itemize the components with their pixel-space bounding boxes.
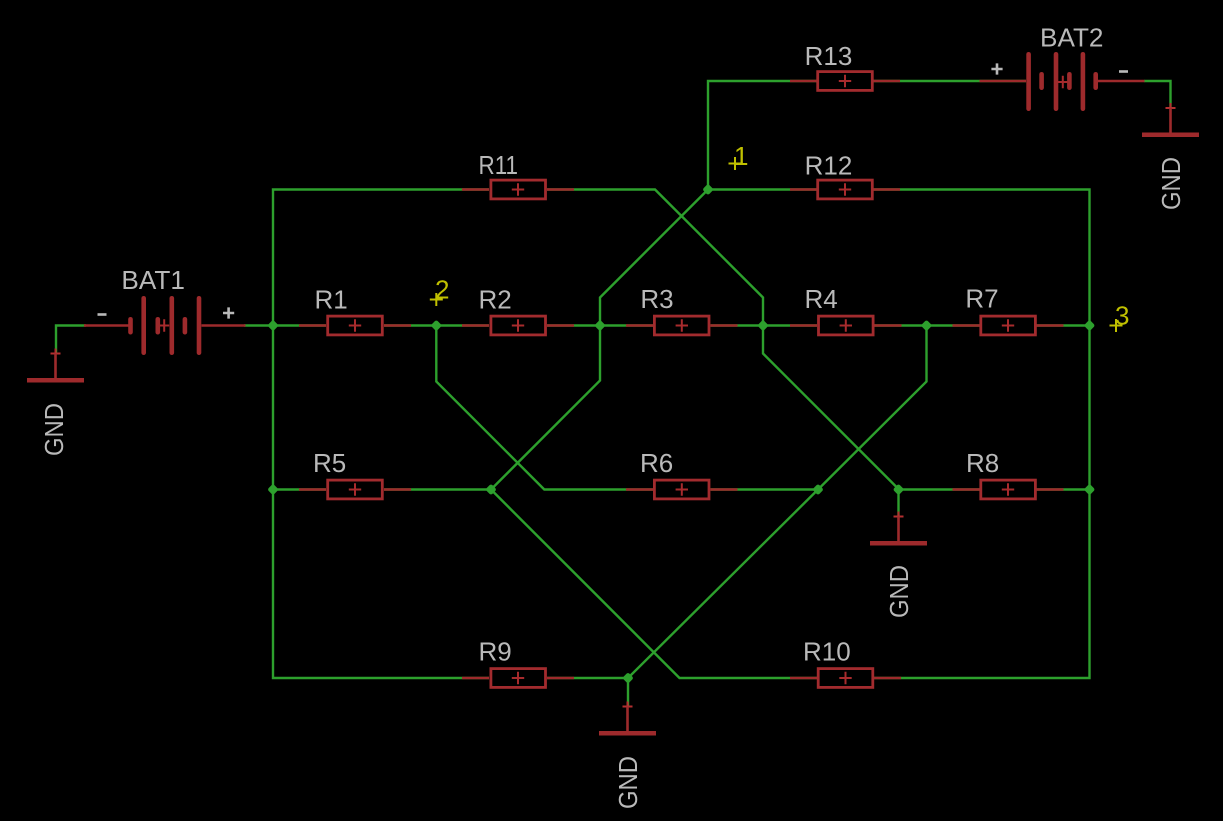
wire lead R8 right bbox=[1037, 488, 1064, 491]
svg-text:2: 2 bbox=[435, 275, 449, 305]
battery BAT2 short bar 2 bbox=[1067, 74, 1072, 87]
svg-text:GND: GND bbox=[1156, 157, 1186, 210]
svg-text:R4: R4 bbox=[805, 284, 838, 314]
wire node R2R3 down diagonal to R5 node bbox=[491, 326, 600, 490]
svg-text:R13: R13 bbox=[805, 41, 853, 71]
wire R8 to right rail bbox=[1037, 488, 1090, 490]
wire top row left (node1 corner to R13) bbox=[708, 81, 817, 190]
resistor R10 origin cross bbox=[839, 672, 851, 685]
resistor R6 box bbox=[654, 480, 709, 499]
battery BAT1 short bar 2 bbox=[156, 319, 161, 332]
battery BAT1 short bar 1 bbox=[128, 319, 133, 332]
battery BAT1 tall bar 3 bbox=[197, 298, 202, 352]
node junction R5 right bbox=[485, 484, 497, 496]
ground GND1 pin cross bbox=[51, 349, 61, 359]
resistor R11 box bbox=[491, 180, 546, 199]
ground GND3 bar bbox=[870, 541, 927, 546]
wire R2 to R3 bbox=[547, 324, 653, 326]
wire lead BAT1 minus bbox=[84, 324, 129, 327]
wire lead R12 right bbox=[873, 188, 900, 191]
wire left rail lower segment bbox=[273, 326, 489, 679]
resistor R3 box bbox=[654, 316, 709, 335]
resistor R4 origin cross bbox=[840, 319, 852, 332]
svg-text:R9: R9 bbox=[479, 637, 512, 667]
node junction GND3 bbox=[893, 484, 905, 496]
wire R1 to R2 through node 2 bbox=[384, 324, 489, 326]
svg-text:R1: R1 bbox=[315, 285, 348, 315]
resistor R9 box bbox=[491, 669, 546, 688]
resistor R3 origin cross bbox=[676, 319, 688, 332]
wire lead R5 left bbox=[299, 488, 326, 491]
resistor R8 box bbox=[981, 480, 1036, 499]
ground GND4 stem bbox=[626, 707, 629, 732]
wire lead R9 left bbox=[462, 677, 489, 680]
wire lead R4 left bbox=[790, 324, 817, 327]
wire lead R3 left bbox=[626, 324, 653, 327]
wire GND3 stub bbox=[897, 490, 899, 518]
wire node1 to R12 bbox=[708, 188, 817, 190]
wire row189 left rail to R11 bbox=[273, 190, 489, 326]
node junction right rail R8 row bbox=[1084, 484, 1096, 496]
battery BAT2 tall bar 1 bbox=[1026, 54, 1031, 108]
svg-text:R2: R2 bbox=[479, 285, 512, 315]
node junction R6 right bbox=[812, 484, 824, 496]
wire R6R8 node diagonal to bottom GND node bbox=[628, 490, 818, 679]
resistor R10 box bbox=[818, 669, 873, 688]
resistor R7 box bbox=[981, 316, 1036, 335]
svg-text:BAT1: BAT1 bbox=[121, 265, 185, 295]
wire lead R2 right bbox=[547, 324, 574, 327]
battery BAT1 short bar 3 bbox=[183, 319, 188, 332]
label BAT2 plus sign bbox=[991, 63, 1002, 74]
wire mid row node to R1 bbox=[273, 324, 326, 326]
svg-text:R7: R7 bbox=[965, 284, 998, 314]
battery BAT2 short bar 3 bbox=[1093, 74, 1098, 87]
svg-text:GND: GND bbox=[884, 565, 914, 618]
wire R4 to R7 bbox=[875, 324, 980, 326]
svg-text:GND: GND bbox=[613, 756, 643, 809]
ground GND3 pin cross bbox=[894, 512, 904, 522]
node junction R2 R3 bbox=[594, 320, 606, 332]
wire node R3R4 down diagonal to GND3 node bbox=[763, 326, 899, 490]
ground GND1 stem bbox=[54, 354, 57, 379]
wire lead R13 left bbox=[790, 80, 817, 83]
wire lead R7 left bbox=[953, 324, 980, 327]
node junction left rail mid bbox=[267, 320, 279, 332]
resistor R2 box bbox=[491, 316, 546, 335]
wire R11 to diagonal into node R3R4 bbox=[547, 190, 763, 326]
resistor R13 origin cross bbox=[839, 75, 851, 88]
resistor R11 origin cross bbox=[512, 183, 524, 196]
resistor R5 origin cross bbox=[349, 483, 361, 496]
resistor R12 origin cross bbox=[839, 183, 851, 196]
wire lead R1 left bbox=[299, 324, 326, 327]
ground GND2 bar bbox=[1142, 133, 1199, 138]
wire lead R6 left bbox=[626, 488, 653, 491]
svg-text:R3: R3 bbox=[640, 284, 673, 314]
label BAT1 plus sign bbox=[223, 307, 234, 318]
wire lead R8 left bbox=[953, 488, 980, 491]
svg-text:1: 1 bbox=[734, 141, 748, 171]
battery BAT2 short bar 1 bbox=[1039, 74, 1044, 87]
svg-text:R6: R6 bbox=[640, 448, 673, 478]
ground GND4 bar bbox=[599, 731, 656, 736]
node junction left rail R5 row bbox=[267, 484, 279, 496]
battery BAT1 tall bar 1 bbox=[141, 298, 146, 352]
ground GND2 stem bbox=[1169, 108, 1172, 133]
wire R5 to its node bbox=[384, 488, 491, 490]
wire lead R1 right bbox=[384, 324, 411, 327]
wire GND1 stub bbox=[56, 326, 86, 355]
resistor R6 origin cross bbox=[676, 483, 688, 496]
wire top row R13 to BAT2 bbox=[873, 80, 1026, 82]
wire lead R12 left bbox=[790, 188, 817, 191]
wire node1 diagonal to node R2R3 bbox=[600, 190, 708, 326]
wire lead BAT2 plus bbox=[980, 80, 1027, 83]
battery BAT1 tall bar 2 bbox=[170, 298, 175, 352]
battery BAT2 tall bar 3 bbox=[1081, 54, 1086, 108]
node 2 name cross bbox=[430, 293, 443, 306]
resistor R1 box bbox=[328, 316, 383, 335]
resistor R7 origin cross bbox=[1002, 319, 1014, 332]
resistor R5 box bbox=[328, 480, 383, 499]
wire lead R13 right bbox=[873, 80, 900, 83]
node 2 junction bbox=[431, 320, 443, 332]
node junction R3 R4 bbox=[757, 320, 769, 332]
resistor R13 box bbox=[818, 72, 873, 91]
resistor R9 origin cross bbox=[512, 672, 524, 685]
wire R3 to R4 bbox=[711, 324, 818, 326]
ground GND4 pin cross bbox=[623, 702, 633, 712]
wire lead R10 left bbox=[790, 677, 817, 680]
wire lead R5 right bbox=[384, 488, 411, 491]
resistor R12 box bbox=[818, 180, 873, 199]
wire lead R7 right bbox=[1037, 324, 1064, 327]
svg-text:R5: R5 bbox=[313, 448, 346, 478]
ground GND3 stem bbox=[897, 517, 900, 542]
wire BAT2 minus to GND2 corner bbox=[1144, 81, 1171, 108]
wire lead R10 right bbox=[874, 677, 901, 680]
wire R6 to R8 node diag bbox=[711, 488, 819, 490]
label BAT1 minus sign bbox=[98, 313, 107, 316]
wire R9 to bottom GND node bbox=[547, 677, 628, 679]
wire R5 node diagonal to R10 row bbox=[491, 490, 817, 679]
svg-text:R12: R12 bbox=[805, 151, 853, 181]
wire lead R4 right bbox=[875, 324, 902, 327]
label BAT2 minus sign bbox=[1119, 70, 1128, 73]
wire lead R3 right bbox=[711, 324, 738, 327]
wire node2 down diagonal to R6 row bbox=[436, 326, 653, 490]
node 3 name cross bbox=[1110, 319, 1123, 332]
svg-text:R8: R8 bbox=[966, 448, 999, 478]
battery BAT1 origin cross bbox=[159, 319, 169, 331]
wire left rail to R5 bbox=[273, 488, 326, 490]
wire R12 to right rail corner bbox=[873, 190, 1090, 326]
wire lead R2 left bbox=[462, 324, 489, 327]
wire GND4 stub bbox=[627, 678, 629, 707]
wire lead BAT2 minus bbox=[1098, 80, 1145, 83]
wire lead R11 left bbox=[462, 188, 489, 191]
svg-text:R10: R10 bbox=[803, 637, 851, 667]
wire BAT1 plus to left rail bbox=[244, 324, 273, 326]
resistor R8 origin cross bbox=[1002, 483, 1014, 496]
battery BAT2 origin cross bbox=[1058, 76, 1068, 88]
wire R7 to right rail node 3 bbox=[1037, 324, 1090, 326]
wire right rail lower segment bbox=[874, 326, 1090, 679]
svg-text:3: 3 bbox=[1115, 301, 1129, 331]
svg-text:BAT2: BAT2 bbox=[1040, 22, 1104, 52]
node 1 junction bbox=[702, 184, 714, 196]
resistor R4 box bbox=[819, 316, 874, 335]
resistor R2 origin cross bbox=[512, 319, 524, 332]
wire lead R11 right bbox=[547, 188, 574, 191]
wire node R4R7 down diagonal to R6R8 node bbox=[818, 326, 927, 490]
wire lead BAT1 plus bbox=[202, 324, 246, 327]
svg-text:R11: R11 bbox=[479, 150, 519, 180]
svg-text:GND: GND bbox=[39, 403, 69, 456]
wire lead R6 right bbox=[711, 488, 738, 491]
wire GND3 node to R8 bbox=[899, 488, 980, 490]
ground GND2 pin cross bbox=[1166, 103, 1176, 113]
battery BAT2 tall bar 2 bbox=[1054, 54, 1059, 108]
node 3 junction right rail bbox=[1084, 320, 1096, 332]
wire lead R9 right bbox=[547, 677, 574, 680]
node junction bottom GND4 bbox=[622, 672, 634, 684]
node 1 name cross bbox=[729, 157, 742, 170]
node junction R4 R7 bbox=[921, 320, 933, 332]
ground GND1 bar bbox=[27, 378, 84, 383]
resistor R1 origin cross bbox=[349, 319, 361, 332]
